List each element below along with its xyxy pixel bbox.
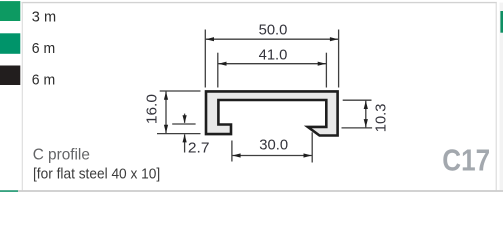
svg-text:41.0: 41.0	[259, 46, 288, 63]
svg-text:[for flat steel 40 x 10]: [for flat steel 40 x 10]	[33, 166, 160, 182]
svg-text:6 m: 6 m	[32, 72, 55, 89]
svg-text:C17: C17	[442, 143, 490, 178]
svg-text:30.0: 30.0	[259, 136, 288, 153]
svg-text:2.7: 2.7	[188, 140, 210, 157]
svg-text:50.0: 50.0	[259, 22, 288, 39]
svg-text:16.0: 16.0	[144, 94, 161, 124]
svg-text:6 m: 6 m	[32, 40, 55, 57]
svg-text:3 m: 3 m	[32, 9, 56, 26]
svg-text:C profile: C profile	[33, 147, 90, 164]
svg-text:10.3: 10.3	[372, 104, 389, 133]
